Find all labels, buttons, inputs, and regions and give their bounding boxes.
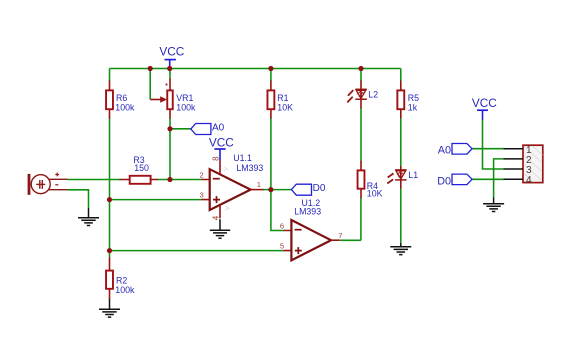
svg-text:VCC: VCC <box>209 136 234 150</box>
op-amp U1.1 <box>202 160 264 218</box>
resistor R1 <box>267 81 274 119</box>
junction pin3 <box>107 197 112 202</box>
mic minus sign <box>55 184 58 186</box>
mic plus sign <box>55 173 59 177</box>
wire output1 to D0 <box>263 189 292 191</box>
svg-text:6: 6 <box>280 221 284 230</box>
terminal D0 left <box>292 184 312 195</box>
junction rail L2 <box>358 66 363 71</box>
svg-text:L1: L1 <box>408 170 418 180</box>
terminal D0 right <box>452 174 472 185</box>
svg-text:7: 7 <box>338 231 342 240</box>
microphone MIC <box>28 174 68 195</box>
svg-text:1: 1 <box>257 180 261 189</box>
power VCC top <box>165 60 176 69</box>
wire L2 R4 column <box>360 69 362 241</box>
wire VR1 wiper drop <box>149 69 151 100</box>
junction rail R1 <box>268 66 273 71</box>
svg-text:LM393: LM393 <box>294 207 321 217</box>
svg-text:A0: A0 <box>438 145 451 157</box>
ground right connector <box>483 198 504 212</box>
ground under mic <box>78 208 99 226</box>
svg-text:R5: R5 <box>408 93 419 103</box>
svg-text:10K: 10K <box>277 103 293 113</box>
wire A0 right to header pin1 <box>472 148 503 150</box>
ground under U1.1 pin4 <box>210 219 230 238</box>
svg-text:R1: R1 <box>277 93 288 103</box>
connector J1 header <box>504 145 543 182</box>
wire output junction down to pin6 <box>271 190 284 231</box>
junction A0 VR1 <box>167 126 172 131</box>
junction rail VCC <box>167 66 172 71</box>
power VCC right <box>477 110 488 119</box>
terminal A0 left <box>191 124 211 135</box>
wire R5 L1 column <box>400 69 402 244</box>
resistor R2 <box>106 258 113 300</box>
wire VR1 bottom to node A0 and R3 row <box>169 118 171 180</box>
junction rail wiper <box>148 66 153 71</box>
junction output1 <box>268 187 273 192</box>
ground under L1 <box>390 243 411 255</box>
svg-text:L2: L2 <box>368 89 378 99</box>
svg-text:150: 150 <box>134 163 149 173</box>
svg-text:R6: R6 <box>116 93 127 103</box>
svg-text:4: 4 <box>212 215 221 220</box>
wire pin5 row <box>110 250 284 252</box>
svg-text:3: 3 <box>200 190 204 199</box>
wire mic plus row <box>68 179 202 181</box>
wire R6 column <box>109 69 111 259</box>
resistor R6 <box>106 81 113 119</box>
wire VCC right drop to pin3 of header <box>483 119 504 169</box>
svg-text:2: 2 <box>200 171 204 180</box>
wire VR1 top <box>169 69 171 80</box>
svg-text:10K: 10K <box>367 189 383 199</box>
wire R1 column <box>270 69 272 190</box>
svg-text:LM393: LM393 <box>236 163 263 173</box>
svg-text:A0: A0 <box>212 122 225 133</box>
junction pin5 <box>107 248 112 253</box>
marker gray U1.1 <box>224 167 228 171</box>
op-amp U1.2 <box>284 220 340 260</box>
svg-text:100k: 100k <box>115 103 135 113</box>
svg-text:4: 4 <box>526 175 532 186</box>
resistor R3 <box>120 176 158 184</box>
wire mic minus to ground <box>68 190 89 208</box>
wire top VCC rail <box>110 68 401 70</box>
svg-text:1k: 1k <box>408 103 418 113</box>
wire A0 branch <box>170 128 191 130</box>
svg-text:100k: 100k <box>115 285 135 295</box>
ground under R2 <box>99 299 120 317</box>
svg-text:D0: D0 <box>313 183 326 194</box>
svg-text:VR1: VR1 <box>176 93 193 103</box>
wire D0 right to header pin4 <box>472 178 503 180</box>
svg-text:VCC: VCC <box>472 96 497 110</box>
svg-text:D0: D0 <box>437 175 451 187</box>
svg-text:R2: R2 <box>116 275 127 285</box>
wire header pin2 to ground <box>494 159 504 198</box>
potentiometer VR1 <box>150 79 173 119</box>
svg-text:VCC: VCC <box>159 44 184 58</box>
LED L1 <box>387 166 406 189</box>
svg-text:U1.1: U1.1 <box>233 153 252 163</box>
svg-text:100k: 100k <box>176 103 196 113</box>
wire pin3 row <box>110 199 202 201</box>
resistor R5 <box>397 81 404 119</box>
svg-text:5: 5 <box>280 242 284 251</box>
power VCC opamp <box>214 149 225 160</box>
LED L2 <box>347 81 367 109</box>
terminal A0 right <box>452 144 472 155</box>
wire pin7 to R4 <box>340 239 361 241</box>
junction R3 pin2 <box>167 177 172 182</box>
resistor R4 <box>358 161 365 199</box>
